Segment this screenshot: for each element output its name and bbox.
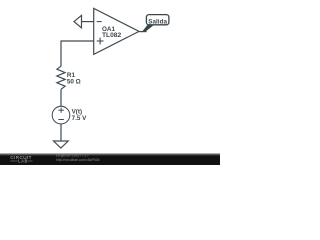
wire voltage source to ground: [60, 124, 62, 141]
wire arrow to op-amp inverting input: [82, 21, 94, 23]
voltage source plus mark: [58, 108, 64, 113]
label TL082: [102, 32, 122, 39]
svg-text:7.5 V: 7.5 V: [72, 115, 88, 122]
op-amp non-inverting input plus mark: [97, 38, 104, 45]
flag Salida tail: [142, 25, 154, 32]
svg-text:Salida: Salida: [148, 18, 167, 25]
label R1: [67, 72, 76, 79]
resistor R1 zigzag: [57, 66, 65, 89]
watermark url text: [56, 154, 100, 162]
op-amp U1 OA1 triangle: [94, 8, 139, 54]
label 7.5 V value: [72, 115, 88, 122]
svg-text:50 Ω: 50 Ω: [67, 79, 81, 86]
wire non-inverting input horizontal: [61, 40, 94, 42]
voltage source V1 circle: [52, 106, 70, 124]
svg-text:TL082: TL082: [102, 32, 122, 39]
flag Salida box: [146, 15, 169, 25]
voltage source minus mark: [58, 119, 64, 121]
ground: [54, 141, 69, 148]
label V(t): [72, 109, 83, 116]
wire resistor to voltage source: [60, 89, 62, 106]
watermark bar: [0, 153, 220, 165]
svg-text:http://circuitlab.com/c8aP53b: http://circuitlab.com/c8aP53b: [56, 158, 100, 162]
wire op-amp output: [139, 31, 147, 33]
label Salida: [148, 18, 167, 25]
watermark CircuitLab logo: [10, 155, 32, 164]
label OA1: [102, 26, 115, 33]
input port arrow (inverting input): [74, 15, 82, 27]
svg-text:LAB: LAB: [18, 159, 28, 164]
op-amp inverting input minus mark: [97, 21, 102, 23]
wire vertical down to resistor R1: [60, 41, 62, 67]
label 50 Ohm value: [67, 79, 81, 86]
